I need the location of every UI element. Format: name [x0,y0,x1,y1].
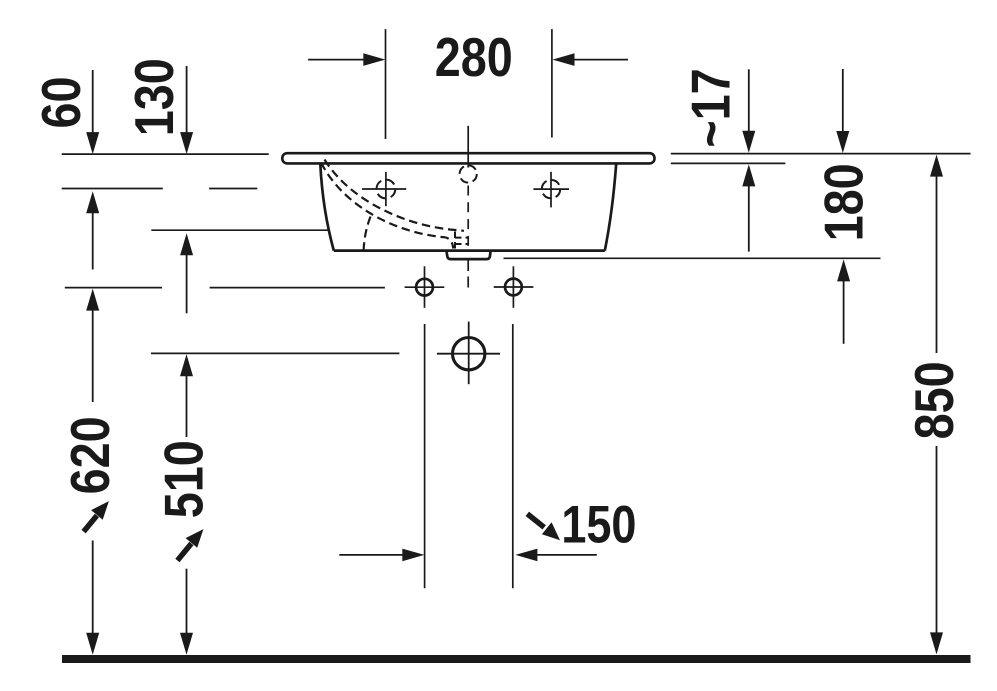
dimension 130 lower tail [186,254,188,313]
dimension 280 right arrow line [573,59,628,61]
centerline below flange dashed [467,260,469,288]
reference line 510 [151,352,399,354]
fixing hole left [416,279,433,296]
svg-text:180: 180 [813,163,874,241]
arrowhead ~17 up [742,164,755,186]
centerline through basin dashed [467,186,469,252]
arrowhead 150 left (points right) [402,549,424,562]
bowl hidden front edge [364,217,371,251]
arrowhead 280 right (points left) [553,53,575,66]
dimension 60 lower tail [92,212,94,270]
arrowhead 150 right (points left) [515,549,537,562]
drain hidden line vertical [454,232,456,251]
arrowhead 620 up [86,289,99,311]
extension line 280 right [551,29,553,137]
arrowhead 510 down [180,633,193,655]
dimension 620 line lower [92,541,94,635]
arrowhead 850 up [930,155,943,177]
dimension 150 right arrow line [536,554,597,556]
washbasin body bottom [334,249,605,252]
dimension 180 upper tail [842,69,844,133]
faucet hole right crosshair [533,188,569,190]
svg-text:~17: ~17 [680,68,741,147]
dimension ~17 lower tail [748,186,750,252]
overflow hidden circle [460,165,477,182]
washbasin slab [282,153,654,163]
extension line 150 right [512,324,514,588]
dimension 180 lower tail [843,281,845,344]
dimension 510 line upper [186,375,188,437]
dimension ~17 upper tail [748,69,750,131]
fixing hole right [505,279,522,296]
drain hidden line step2 [455,243,468,245]
dimension 850 line upper [936,176,938,354]
arrowhead 60 down [86,132,99,154]
arrowhead 180 up [837,259,850,281]
reference line 180 [504,257,881,259]
dimension 60 upper tail [92,70,94,133]
svg-text:850: 850 [903,361,964,439]
washbasin body left wall [320,164,334,251]
slanted arrow at 510 [177,529,203,560]
rim level line left [62,153,269,155]
arrowhead 180 down [836,131,849,153]
arrowhead 130 down [180,132,193,154]
faucet hole left hidden circle [377,180,396,199]
arrowhead 620 down [86,633,99,655]
arrowhead 280 left (points right) [363,53,385,66]
reference line 60 (right segment) [209,188,257,190]
reference line 620 (left segment) [65,287,162,289]
arrowhead 130 up [180,233,193,255]
dimension 510 line lower [186,569,188,634]
faucet hole left crosshair [362,188,406,190]
faucet hole right hidden circle [542,180,560,198]
arrowhead 510 up [180,354,193,376]
dimension 620 line upper [92,310,94,403]
drain flange [447,252,491,259]
arrowhead 850 down [930,632,943,654]
reference line 620 (right segment) [210,287,385,289]
svg-text:510: 510 [153,440,214,518]
reference line 60 (left segment) [62,188,163,190]
reference line 130 [151,229,328,231]
arrowhead 60 up [86,191,99,213]
bowl hidden contour upper [325,160,465,231]
slanted arrow at 150 [527,514,560,540]
washbasin body right wall [605,164,616,251]
svg-text:280: 280 [435,26,513,87]
floor line [62,655,971,663]
extension line 280 left [385,29,387,139]
svg-text:150: 150 [561,495,636,554]
siphon circle [453,338,485,370]
svg-text:130: 130 [123,58,184,136]
svg-text:60: 60 [30,77,91,129]
arrowhead ~17 down [742,131,755,153]
bowl hidden contour lower [321,163,453,249]
dimension 130 upper tail [186,66,188,133]
dimension 280 left arrow line [308,59,364,61]
slanted arrow at 620 [84,501,109,531]
dimension 150 left arrow line [339,554,403,556]
drain hidden line step1 [455,237,468,239]
ceramic top level line right [671,153,971,155]
extension line 150 left [424,324,426,588]
centerline above basin [467,126,469,168]
ceramic bottom level line right [671,162,786,164]
svg-text:620: 620 [59,416,120,494]
dimension 850 line lower [936,446,938,633]
